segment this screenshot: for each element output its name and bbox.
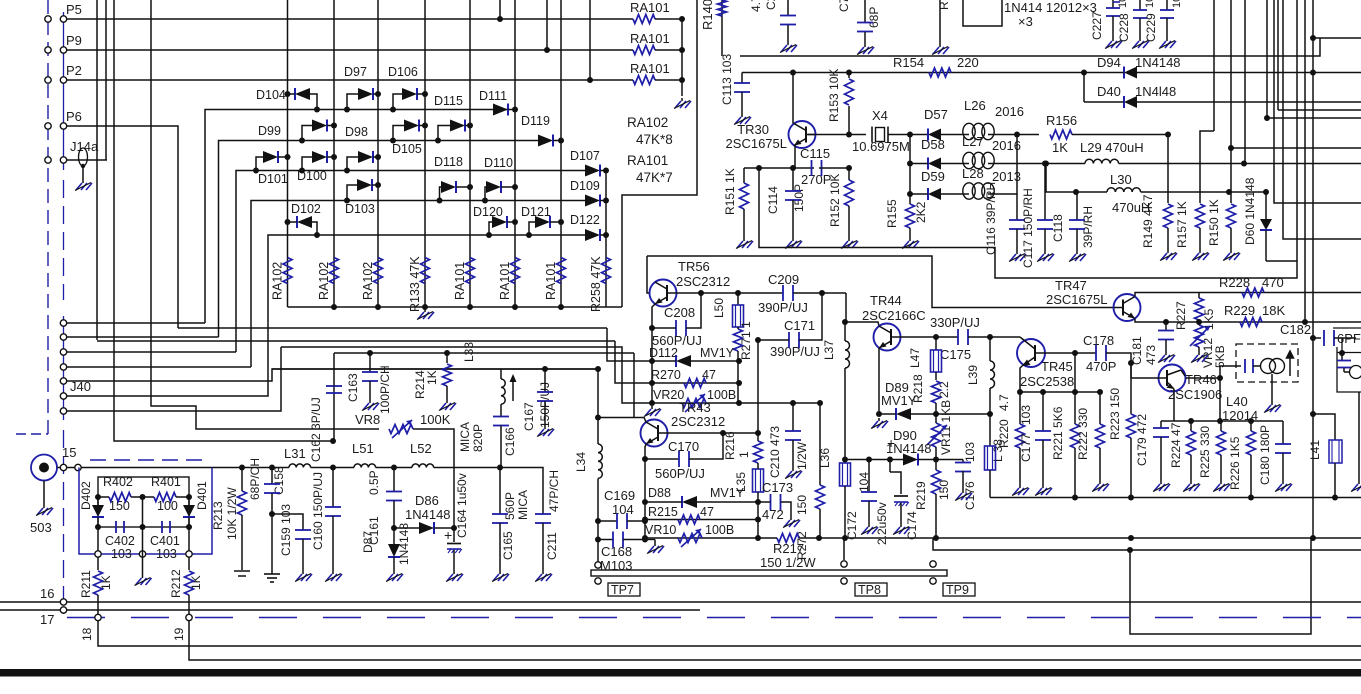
svg-text:150: 150	[937, 480, 951, 500]
wire TP9 rail y550	[933, 538, 1130, 550]
svg-text:560P/UJ: 560P/UJ	[655, 466, 705, 481]
wire line y369	[272, 368, 598, 370]
svg-text:D110: D110	[484, 156, 513, 170]
wire matrix bus row5 to y369 line	[67, 369, 599, 381]
resistor RA101 col x470	[466, 258, 475, 284]
wire TP8 stub	[843, 538, 845, 560]
svg-text:D59: D59	[921, 169, 945, 184]
svg-text:R402: R402	[103, 475, 133, 489]
pin J40	[60, 408, 66, 414]
wire TR30 base rail y134	[808, 134, 866, 136]
svg-text:2.2u50v: 2.2u50v	[875, 502, 889, 545]
svg-text:390P/UJ: 390P/UJ	[758, 300, 808, 315]
svg-text:L41: L41	[1308, 440, 1322, 460]
svg-text:68P: 68P	[867, 7, 881, 28]
svg-text:D111: D111	[479, 89, 507, 103]
svg-text:C208: C208	[664, 305, 695, 320]
svg-text:C113 103: C113 103	[720, 54, 734, 105]
wire pin19 bus	[189, 621, 1361, 660]
svg-text:1N414 12012×3: 1N414 12012×3	[1004, 0, 1097, 15]
wire matrix bus row6 y235	[67, 235, 586, 396]
svg-text:L51: L51	[352, 441, 374, 456]
ground matrix rail	[424, 309, 426, 312]
svg-text:D97: D97	[344, 65, 367, 79]
svg-text:C164 1u50v: C164 1u50v	[455, 473, 469, 538]
wire matrix bus row7 to y347 line	[67, 347, 282, 411]
svg-text:39P/RH: 39P/RH	[1081, 206, 1095, 248]
svg-text:L40: L40	[1226, 394, 1248, 409]
svg-text:C2: C2	[764, 0, 778, 10]
svg-text:P9: P9	[66, 33, 82, 48]
svg-text:R401: R401	[151, 475, 181, 489]
wire TR44 base rail	[900, 336, 958, 338]
svg-text:R211: R211	[79, 570, 93, 598]
wire pin15 row	[81, 467, 272, 469]
wire bus column x97	[96, 0, 98, 340]
resistor R133 col x425	[421, 258, 430, 284]
wire TR45 base out	[1035, 352, 1096, 354]
svg-text:4.7: 4.7	[749, 0, 763, 12]
svg-text:R227: R227	[1174, 301, 1188, 330]
svg-text:330P/UJ: 330P/UJ	[930, 315, 980, 330]
wire matrix column x378	[377, 0, 379, 307]
svg-text:C165: C165	[501, 531, 515, 560]
wire TR43 base-emitter rail x645	[644, 459, 646, 538]
ground module	[142, 575, 144, 578]
wire C209 to L37 and TR44 base	[846, 293, 879, 326]
svg-text:R216: R216	[723, 431, 737, 460]
svg-text:C174: C174	[905, 511, 919, 540]
svg-text:R221 5K6: R221 5K6	[1051, 406, 1065, 460]
wire pin18 bus	[98, 621, 1361, 646]
svg-text:R: R	[937, 1, 951, 10]
svg-text:2SC1675L: 2SC1675L	[1046, 292, 1107, 307]
svg-text:C229: C229	[1144, 13, 1158, 42]
svg-text:D109: D109	[570, 179, 600, 193]
svg-text:R153 10K: R153 10K	[827, 69, 841, 122]
svg-text:D102: D102	[291, 202, 321, 216]
svg-text:L47: L47	[908, 348, 922, 368]
svg-text:RA101: RA101	[544, 262, 558, 300]
svg-text:×3: ×3	[1018, 14, 1033, 29]
wire column x1305	[1304, 0, 1306, 322]
svg-text:220: 220	[957, 55, 979, 70]
wire bus column x500 from P5	[499, 0, 501, 19]
wire RA101 common	[681, 19, 683, 96]
svg-text:2SC1675L: 2SC1675L	[726, 136, 787, 151]
svg-text:R220: R220	[997, 419, 1011, 448]
svg-text:103: 103	[156, 547, 177, 561]
svg-text:100P/CH: 100P/CH	[378, 365, 392, 414]
ground J14a	[82, 180, 84, 183]
wire column x1214	[1213, 0, 1215, 131]
pin J40	[60, 364, 66, 370]
svg-text:C179 472: C179 472	[1135, 414, 1149, 466]
ground TR56 base rail	[651, 406, 653, 409]
svg-text:C115: C115	[800, 146, 830, 161]
svg-text:2SC2538: 2SC2538	[1020, 374, 1074, 389]
svg-text:R215: R215	[648, 505, 678, 519]
svg-text:470: 470	[1262, 275, 1284, 290]
ground C173	[790, 517, 792, 520]
wire top rail y56	[740, 38, 1320, 56]
pin J40	[60, 334, 66, 340]
svg-text:R156: R156	[1046, 113, 1077, 128]
svg-text:C158: C158	[272, 466, 286, 495]
svg-text:C114: C114	[766, 186, 780, 214]
svg-text:18: 18	[80, 627, 94, 641]
svg-text:TR56: TR56	[678, 259, 710, 274]
resistor RA102 col x334	[330, 258, 339, 284]
svg-text:390P/UJ: 390P/UJ	[770, 344, 820, 359]
resistor R258 col x606	[602, 258, 611, 284]
svg-text:R217: R217	[773, 541, 804, 556]
svg-text:47: 47	[700, 505, 714, 519]
pin J40	[60, 378, 66, 384]
wire bus column x547	[546, 0, 548, 50]
wire TR46 collector	[1186, 377, 1221, 379]
wire TR43 collector feed	[598, 418, 646, 423]
svg-text:C171: C171	[784, 318, 815, 333]
svg-text:560P: 560P	[503, 492, 517, 520]
wire R229 rail y322	[1166, 321, 1361, 323]
svg-text:R226 1K5: R226 1K5	[1228, 436, 1242, 490]
wire matrix column x470	[469, 0, 471, 307]
test point TP8	[841, 561, 847, 567]
ground 503	[43, 481, 45, 506]
svg-text:L29 470uH: L29 470uH	[1080, 140, 1144, 155]
module pins	[95, 551, 101, 557]
wire bus y328 P6 net	[178, 327, 607, 329]
wire C171 left stub	[758, 339, 789, 341]
svg-text:C117 150P/RH: C117 150P/RH	[1021, 188, 1035, 268]
svg-text:MV1Y: MV1Y	[881, 393, 917, 408]
svg-text:D105: D105	[392, 142, 422, 156]
wire matrix column x606	[605, 171, 607, 308]
svg-text:L39: L39	[966, 365, 980, 385]
svg-text:R152 10K: R152 10K	[828, 174, 842, 227]
svg-text:820P: 820P	[471, 424, 485, 452]
svg-text:R222 330: R222 330	[1076, 408, 1090, 460]
svg-text:100: 100	[157, 499, 178, 513]
svg-text:2SC1906: 2SC1906	[1168, 387, 1222, 402]
wire bus y340	[97, 340, 615, 342]
svg-text:1K: 1K	[425, 370, 439, 385]
svg-text:C211: C211	[545, 532, 559, 560]
junction dots P rows	[497, 16, 503, 22]
svg-text:L31: L31	[284, 446, 306, 461]
wire R271 col to VR20	[737, 361, 739, 403]
svg-text:D104: D104	[256, 88, 286, 102]
wire C162 column	[333, 386, 335, 441]
svg-text:D98: D98	[345, 125, 368, 139]
wire L27 right	[994, 163, 1085, 165]
svg-text:RA101: RA101	[498, 262, 512, 300]
test point bar	[591, 570, 947, 576]
svg-text:RA101: RA101	[627, 153, 668, 168]
svg-text:1N4l48: 1N4l48	[1135, 84, 1176, 99]
capacitor inside L40	[1244, 359, 1246, 373]
svg-text:10: 10	[1171, 0, 1183, 8]
svg-text:TR46: TR46	[1185, 372, 1217, 387]
wire module pin stubs	[97, 527, 99, 551]
wire L29 right	[1119, 163, 1244, 165]
svg-text:C227: C227	[1090, 11, 1104, 40]
wire X4 to D57	[888, 134, 928, 136]
svg-text:R228: R228	[1219, 275, 1250, 290]
svg-text:D86: D86	[415, 493, 439, 508]
wire C171 left to TR43 base rail	[755, 337, 761, 343]
svg-text:RA101: RA101	[453, 262, 467, 300]
svg-text:D88: D88	[648, 486, 671, 500]
svg-text:R157 1K: R157 1K	[1175, 201, 1189, 248]
wire TR56 emitter	[652, 304, 655, 328]
ground C168	[654, 543, 656, 546]
wire module center to ground	[142, 497, 144, 527]
wire bus column x114	[114, 0, 334, 441]
ground D89	[878, 418, 880, 421]
svg-text:R258 47K: R258 47K	[589, 256, 603, 312]
svg-text:19: 19	[172, 627, 186, 641]
svg-text:C168: C168	[601, 544, 632, 559]
wire matrix bus row1 y109.5	[67, 322, 206, 324]
svg-text:10: 10	[1144, 0, 1156, 8]
capacitor R213 bottom bar	[234, 570, 250, 572]
right module box	[1337, 347, 1361, 392]
svg-text:M103: M103	[600, 558, 633, 573]
wire matrix column x287	[287, 0, 289, 307]
svg-text:C173: C173	[762, 480, 793, 495]
wire R152 top	[848, 168, 850, 180]
svg-text:473: 473	[768, 426, 782, 446]
svg-text:RA102: RA102	[317, 262, 331, 300]
wire collector rail y72	[742, 72, 1084, 74]
svg-text:D40: D40	[1097, 84, 1121, 99]
svg-text:D120: D120	[473, 205, 503, 219]
pin J40	[60, 393, 66, 399]
svg-text:R225 330: R225 330	[1198, 426, 1212, 478]
wire L34 rail top	[597, 369, 599, 417]
svg-text:R151 1K: R151 1K	[723, 168, 737, 215]
pin J40	[60, 349, 66, 355]
wire C178 to TR46 base	[1130, 363, 1132, 378]
wire bus column x592	[589, 0, 591, 80]
svg-text:473: 473	[1144, 345, 1158, 365]
wire TP9 loop	[1130, 538, 1311, 634]
svg-text:D60 1N4148: D60 1N4148	[1243, 177, 1257, 245]
wire column x1267	[1266, 0, 1268, 118]
svg-text:TR43: TR43	[679, 400, 711, 415]
svg-text:100K: 100K	[420, 412, 451, 427]
svg-text:10: 10	[1117, 0, 1129, 8]
wire module right vertical	[1341, 338, 1343, 353]
wire TR43 emitter	[645, 444, 646, 459]
capacitor right module	[1339, 350, 1345, 356]
wire VR20 rail to R272	[739, 402, 820, 404]
svg-text:D87: D87	[361, 531, 375, 553]
svg-text:C180 180P: C180 180P	[1258, 425, 1272, 485]
wire module mid rail	[95, 524, 101, 530]
wire row y148	[1231, 147, 1361, 149]
svg-text:L27: L27	[962, 134, 984, 149]
wire P5 row	[67, 18, 633, 20]
wire TR45 emitter rail	[1020, 391, 1075, 393]
svg-text:R149 4K7: R149 4K7	[1141, 194, 1155, 248]
wire TR46 to L40	[1220, 366, 1241, 378]
svg-text:C160 150P/UJ: C160 150P/UJ	[311, 472, 325, 550]
module inner box	[98, 477, 189, 527]
svg-text:X4: X4	[872, 108, 888, 123]
svg-text:VR10: VR10	[645, 523, 676, 537]
svg-text:47K*8: 47K*8	[636, 132, 673, 147]
blue module box	[79, 468, 212, 555]
svg-text:L33: L33	[462, 342, 476, 362]
svg-text:103: 103	[111, 547, 132, 561]
wire bus column x151	[151, 0, 379, 429]
ground L40	[1271, 374, 1273, 402]
blue dashed boundary bottom	[67, 617, 1361, 619]
svg-text:R271 1: R271 1	[739, 321, 753, 360]
wire TR45 collector feed	[990, 336, 1020, 338]
wire right module ground col	[1358, 392, 1360, 481]
svg-text:L37: L37	[822, 340, 836, 360]
svg-text:150 1/2W: 150 1/2W	[760, 555, 816, 570]
svg-text:J14a: J14a	[70, 139, 99, 154]
svg-text:RA102: RA102	[271, 262, 285, 300]
svg-text:C167: C167	[522, 402, 536, 431]
svg-text:R140: R140	[700, 0, 715, 30]
test point TP7	[595, 562, 601, 568]
svg-text:6PF: 6PF	[1337, 331, 1361, 346]
wire D89 rail right	[936, 413, 990, 415]
ground RA101 common	[681, 98, 683, 101]
test point TP9	[930, 561, 936, 567]
svg-text:503: 503	[30, 520, 52, 535]
svg-text:VR8: VR8	[355, 412, 380, 427]
wire L35 rail	[757, 502, 759, 538]
wire TR47 collector	[1135, 293, 1199, 297]
svg-text:RA102: RA102	[627, 115, 668, 130]
wire L26 to R156 line	[994, 134, 1039, 136]
svg-text:D118: D118	[434, 155, 463, 169]
wire L30 right	[1141, 191, 1266, 193]
svg-text:C166: C166	[503, 427, 517, 456]
svg-text:104: 104	[612, 502, 634, 517]
wire matrix column x561	[560, 0, 562, 307]
svg-text:1/2W: 1/2W	[795, 441, 809, 470]
svg-text:D103: D103	[345, 202, 375, 216]
wire TR30 collector	[792, 73, 794, 124]
wire P6 row	[67, 126, 178, 328]
svg-text:C116 39P/RH: C116 39P/RH	[984, 182, 998, 255]
svg-text:100B: 100B	[705, 523, 734, 537]
wire TR56 base rail y293	[676, 292, 783, 294]
svg-text:L36: L36	[818, 448, 832, 468]
svg-text:2SC2312: 2SC2312	[676, 274, 730, 289]
svg-text:C163: C163	[346, 373, 360, 402]
wire D94 col junction	[1310, 70, 1316, 76]
svg-text:4.7: 4.7	[997, 394, 1011, 411]
svg-text:2SC2166C: 2SC2166C	[862, 308, 926, 323]
board edge dashed line left	[47, 0, 49, 434]
resistor RA101 col x561	[557, 258, 566, 284]
wire D90 rail	[845, 459, 869, 461]
svg-text:R223 150: R223 150	[1108, 388, 1122, 440]
svg-text:TR44: TR44	[870, 293, 902, 308]
wire J14a	[67, 159, 107, 161]
wire right module row	[1337, 352, 1361, 354]
wire TR56 base	[647, 256, 649, 293]
svg-text:L26: L26	[964, 98, 986, 113]
wire column x1231	[1230, 0, 1232, 148]
wire TR47 emitter	[1135, 319, 1166, 322]
svg-text:C210: C210	[768, 449, 782, 478]
svg-text:D94: D94	[1097, 55, 1121, 70]
wire column x1297	[1296, 0, 1298, 261]
svg-text:C170: C170	[668, 439, 699, 454]
wire emitter rail y497	[990, 497, 1361, 499]
wire matrix column x515	[514, 0, 516, 307]
pin J40	[60, 320, 66, 326]
svg-text:18K: 18K	[1262, 303, 1285, 318]
svg-text:2016: 2016	[995, 104, 1024, 119]
svg-text:D106: D106	[388, 65, 418, 79]
svg-text:1: 1	[737, 451, 751, 458]
svg-text:+: +	[887, 435, 895, 451]
svg-text:C182: C182	[1280, 322, 1311, 337]
wire D59 branch	[909, 164, 911, 195]
svg-text:TR30: TR30	[737, 122, 769, 137]
svg-text:C181: C181	[1130, 336, 1144, 365]
svg-text:P5: P5	[66, 2, 82, 17]
coil right module	[1350, 366, 1361, 379]
arrow L33 core	[512, 381, 514, 401]
wire TR46 emitter down	[1173, 389, 1175, 421]
bottom thick bar	[0, 669, 1361, 677]
svg-text:RA101: RA101	[630, 61, 670, 76]
svg-text:12014: 12014	[1222, 408, 1258, 423]
svg-text:0.5P: 0.5P	[367, 470, 381, 495]
svg-text:D58: D58	[921, 137, 945, 152]
wire rows right edge	[1313, 37, 1361, 39]
arrow inside L40	[1287, 351, 1294, 376]
svg-text:D401: D401	[195, 481, 209, 510]
svg-text:TP8: TP8	[858, 583, 881, 597]
wire D57 to L26	[941, 134, 963, 136]
svg-text:R213: R213	[211, 501, 225, 530]
resistor RA101 col x515	[511, 258, 520, 284]
svg-text:D101: D101	[258, 172, 288, 186]
wire emitter rail y168	[744, 167, 814, 169]
svg-text:C177: C177	[1019, 433, 1033, 462]
wire C116 column	[1016, 194, 1018, 220]
svg-text:C401: C401	[150, 534, 180, 548]
wire L28 right to R156 node	[994, 135, 1017, 195]
svg-text:TP9: TP9	[946, 583, 969, 597]
svg-text:17: 17	[40, 612, 54, 627]
wire matrix bus row2 y140.5	[67, 336, 219, 338]
svg-text:C162 3P/UJ: C162 3P/UJ	[309, 397, 323, 462]
wire matrix column x425	[424, 0, 426, 307]
wire line y347 to VR20	[281, 347, 652, 403]
svg-text:D57: D57	[924, 107, 948, 122]
svg-text:16: 16	[40, 586, 54, 601]
wire bus column x106	[105, 0, 107, 160]
svg-text:1K: 1K	[1052, 140, 1068, 155]
svg-text:C178: C178	[1083, 333, 1114, 348]
svg-text:R150 1K: R150 1K	[1207, 199, 1221, 246]
svg-text:L52: L52	[410, 441, 432, 456]
